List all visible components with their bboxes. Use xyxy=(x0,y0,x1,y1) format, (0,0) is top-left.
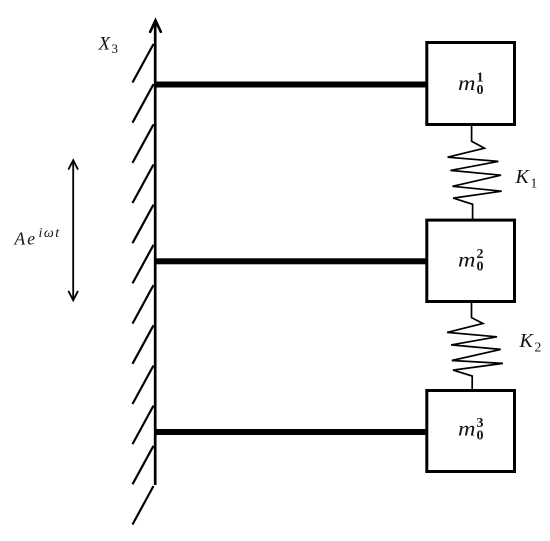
svg-text:X: X xyxy=(98,34,112,55)
svg-text:m: m xyxy=(458,417,476,441)
label Ae^iwt xyxy=(14,226,61,249)
mass m_0^2 box xyxy=(427,220,515,301)
label m_0^1 xyxy=(458,71,484,99)
rod to mass 3 xyxy=(154,429,427,435)
svg-text:m: m xyxy=(458,71,476,95)
svg-text:K: K xyxy=(515,166,531,188)
spring K2 xyxy=(447,303,503,389)
mass m_0^1 box xyxy=(427,43,515,125)
rod to mass 1 xyxy=(154,82,427,88)
spring K1 xyxy=(448,126,502,219)
svg-text:2: 2 xyxy=(535,339,542,354)
label K1 xyxy=(515,166,538,190)
rod to mass 2 xyxy=(154,258,427,264)
svg-text:m: m xyxy=(458,248,476,272)
svg-text:3: 3 xyxy=(112,41,119,56)
svg-text:iωt: iωt xyxy=(39,226,61,241)
wall vertical line with arrow (axis X3) xyxy=(150,20,161,485)
svg-text:K: K xyxy=(519,330,535,352)
wall hatching xyxy=(133,44,154,525)
svg-text:Ae: Ae xyxy=(14,229,37,249)
label m_0^2 xyxy=(458,247,484,275)
svg-text:1: 1 xyxy=(531,176,538,191)
svg-text:0: 0 xyxy=(477,260,484,275)
svg-text:0: 0 xyxy=(477,83,484,98)
excitation double arrow xyxy=(69,160,78,300)
label X3 xyxy=(98,34,119,57)
label m_0^3 xyxy=(458,416,484,444)
label K2 xyxy=(519,330,542,354)
svg-text:0: 0 xyxy=(477,429,484,444)
mass m_0^3 box xyxy=(427,391,515,472)
